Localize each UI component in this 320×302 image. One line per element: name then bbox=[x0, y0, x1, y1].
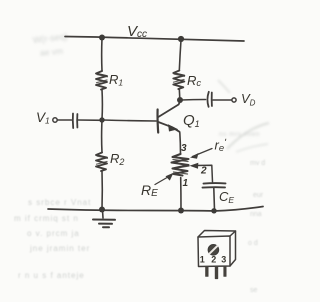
package legs bbox=[205, 266, 226, 279]
svg-text:VD: VD bbox=[241, 91, 256, 108]
svg-text:3: 3 bbox=[181, 143, 187, 154]
svg-text:V1: V1 bbox=[36, 110, 50, 126]
svg-text:Rc: Rc bbox=[187, 73, 201, 89]
node on rail above RC bbox=[178, 36, 184, 42]
wire top rail Vcc bbox=[65, 37, 244, 42]
svg-text:eur: eur bbox=[253, 192, 264, 199]
svg-text:CE: CE bbox=[219, 189, 234, 205]
svg-text:1: 1 bbox=[200, 255, 205, 265]
bleed-through faint arcs right-middle bbox=[218, 80, 269, 152]
svg-text:1: 1 bbox=[183, 178, 189, 189]
wire C1 to node bbox=[78, 119, 103, 121]
svg-text:W(r-seq): W(r-seq) bbox=[32, 31, 68, 45]
wire V1 to C1 bbox=[58, 119, 72, 121]
svg-text:2: 2 bbox=[200, 166, 207, 177]
resistor R2 bbox=[96, 153, 107, 172]
svg-text:ae vm: ae vm bbox=[40, 46, 64, 58]
svg-text:Q1: Q1 bbox=[183, 112, 200, 129]
svg-text:reʹ: reʹ bbox=[215, 138, 228, 155]
wire emitter down bbox=[179, 133, 182, 155]
emitter arrowhead Q1 bbox=[168, 124, 178, 131]
node CE-rail bbox=[211, 208, 216, 213]
svg-text:nna: nna bbox=[250, 211, 262, 218]
arrow tap bbox=[190, 163, 199, 169]
wire RE to bottom rail bbox=[180, 178, 182, 211]
capacitor CE bbox=[204, 182, 226, 185]
wire bottom rail bbox=[48, 207, 263, 212]
svg-text:2: 2 bbox=[211, 255, 216, 265]
resistor RE bbox=[172, 154, 189, 176]
svg-text:o d: o d bbox=[248, 240, 258, 247]
bleed-through ghost text left-bottom bbox=[14, 198, 91, 280]
bleed-through smudge top-left bbox=[32, 31, 68, 58]
arrow RE label to resistor bbox=[155, 176, 171, 185]
wire node to R2 bbox=[101, 120, 103, 153]
resistor R1 bbox=[96, 71, 107, 90]
bleed-through ghost right edge bbox=[248, 160, 265, 294]
terminal Vo bbox=[232, 98, 236, 102]
svg-text:s srbce r Vnat: s srbce r Vnat bbox=[28, 198, 91, 207]
transistor Q1 bbox=[156, 110, 159, 133]
node collector bbox=[177, 97, 183, 103]
svg-text:se: se bbox=[250, 287, 258, 294]
svg-text:R2: R2 bbox=[110, 151, 124, 167]
resistor RC bbox=[173, 71, 184, 90]
wire collector to C2 bbox=[181, 99, 206, 102]
arrow re' to RE top bbox=[193, 149, 213, 157]
wire rail to R1 bbox=[101, 38, 103, 71]
wire tap 2 to CE bbox=[195, 165, 213, 182]
svg-text:R1: R1 bbox=[109, 72, 123, 88]
wire R2 to bottom rail bbox=[101, 171, 103, 209]
svg-text:3: 3 bbox=[221, 255, 226, 265]
capacitor C1 bbox=[72, 114, 74, 129]
transistor package box bbox=[198, 231, 236, 267]
wire R1 to input node bbox=[101, 90, 103, 120]
wire rail to RC bbox=[179, 40, 181, 71]
svg-text:mv d: mv d bbox=[250, 160, 265, 167]
package screw bbox=[208, 245, 219, 256]
svg-text:ns mrs nven: ns mrs nven bbox=[219, 131, 260, 138]
svg-text:m if crmiq st n: m if crmiq st n bbox=[14, 214, 79, 223]
wire RC to collector node bbox=[178, 89, 181, 100]
node on rail above R1 bbox=[99, 35, 105, 41]
svg-text:Vcc: Vcc bbox=[127, 23, 147, 40]
svg-text:r n u s f anteje: r n u s f anteje bbox=[18, 271, 85, 280]
svg-text:o v. prcm ja: o v. prcm ja bbox=[27, 229, 80, 238]
wire C2 to Vo bbox=[213, 99, 232, 101]
node input junction bbox=[99, 117, 104, 122]
wire CE to rail bbox=[213, 188, 216, 210]
terminal V1 bbox=[53, 118, 57, 122]
svg-text:jne jramin ter: jne jramin ter bbox=[29, 244, 90, 253]
ground bbox=[102, 210, 105, 218]
node ground junction bbox=[99, 207, 105, 213]
wire base: node to transistor bbox=[103, 120, 156, 121]
capacitor C2 bbox=[207, 92, 208, 107]
node emitter-rail bbox=[178, 208, 184, 214]
